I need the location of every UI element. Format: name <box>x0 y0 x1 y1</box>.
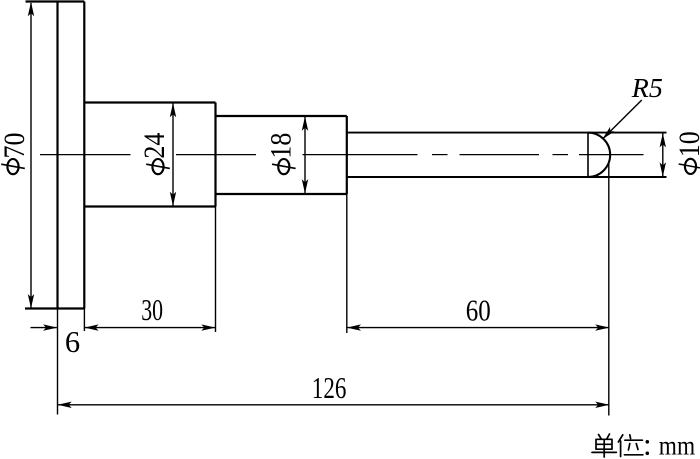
dimension 126 line <box>58 402 610 408</box>
dimension phi70 line <box>28 2 34 308</box>
svg-text:24: 24 <box>138 133 171 159</box>
glyph wei (位) <box>618 435 623 457</box>
dimension phi24 line <box>170 103 176 206</box>
label phi24 <box>138 133 171 175</box>
centerline (dash-dot axis of shaft) <box>40 154 644 156</box>
svg-text:60: 60 <box>466 294 491 328</box>
label phi10 <box>673 131 700 174</box>
svg-text:30: 30 <box>141 293 163 327</box>
note: unit label "单位: mm" <box>592 434 643 457</box>
dimension 6 line (outside arrows) <box>31 324 58 330</box>
extension line at shaft right end <box>608 164 610 416</box>
svg-text:70: 70 <box>0 133 31 159</box>
colon <box>646 440 650 455</box>
phi24 step outline <box>84 103 215 207</box>
extension line below flange left edge <box>57 309 59 415</box>
extension line below flange right edge <box>83 309 85 332</box>
svg-text:18: 18 <box>264 133 297 159</box>
extension line below phi24 right edge <box>215 207 217 333</box>
R5 spherical end arc <box>588 133 610 177</box>
dimension phi18 line <box>302 117 308 194</box>
label phi70 <box>0 133 31 175</box>
dimension 30 line <box>84 324 215 330</box>
flange (phi70 disc) outline <box>25 2 84 309</box>
dimension 60 line <box>347 324 610 330</box>
phi10 shaft outline (top/bottom lines double as extension lines for phi10 dim) <box>347 133 667 177</box>
svg-text:10: 10 <box>673 131 700 157</box>
extension line below phi18 right edge <box>346 194 348 333</box>
glyph dan (单) <box>599 435 602 439</box>
svg-text:126: 126 <box>312 371 347 405</box>
svg-text:R5: R5 <box>631 72 663 103</box>
R5 leader line <box>600 100 642 141</box>
phi18 step outline <box>216 116 347 194</box>
dimension phi10 line <box>660 133 666 176</box>
label phi18 <box>264 133 297 175</box>
svg-text:6: 6 <box>65 325 80 359</box>
rounded shaft end chord <box>587 133 589 177</box>
svg-text:mm: mm <box>659 430 695 459</box>
